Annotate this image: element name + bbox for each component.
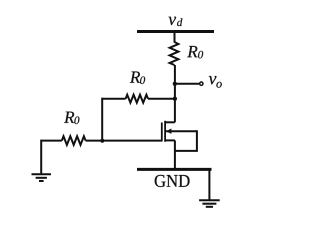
node v_o terminal circle bbox=[200, 82, 203, 85]
resistor R2 (R0, feedback) bbox=[126, 95, 148, 103]
transistor Q1 drain stub bbox=[165, 121, 175, 123]
transistor Q1 gate bar bbox=[161, 123, 163, 142]
wire: body tie drop bbox=[175, 130, 197, 151]
node junction dot (gate node) bbox=[100, 139, 104, 143]
label R0 (drain load) bbox=[187, 46, 203, 58]
label R0 (feedback) bbox=[130, 72, 145, 84]
wire: feedback resistor right lead bbox=[148, 98, 175, 100]
wire: left drop to ground bbox=[40, 140, 42, 174]
node junction dot (feedback tap) bbox=[173, 97, 177, 101]
wire: gate line (junction to gate bar) bbox=[86, 140, 162, 142]
transistor Q1 channel bar bbox=[164, 121, 166, 142]
wire: feedback column down to gate bbox=[101, 98, 103, 141]
ground (left) bbox=[32, 174, 52, 181]
ground (right) bbox=[199, 200, 220, 207]
wire: rail to right ground bbox=[208, 169, 210, 199]
wire: rail to resistor R1 bbox=[174, 32, 176, 43]
wire: drain column bbox=[174, 65, 176, 122]
label v_d bbox=[169, 17, 183, 26]
label v_o bbox=[209, 76, 222, 88]
resistor R3 (R0, gate to ground) bbox=[62, 136, 86, 145]
transistor Q1 body arrowhead bbox=[166, 129, 171, 134]
transistor Q1 body arrow line bbox=[166, 130, 197, 132]
wire: source down to ground rail bbox=[174, 140, 176, 169]
resistor R1 (R0, drain load) bbox=[170, 42, 179, 65]
wire: gate resistor left lead bbox=[41, 140, 62, 142]
label GND bbox=[155, 175, 190, 187]
label R0 (gate resistor) bbox=[64, 112, 79, 124]
power rail v_d bbox=[137, 30, 214, 33]
transistor Q1 source stub bbox=[165, 139, 175, 141]
wire: output branch bbox=[175, 83, 199, 85]
ground rail GND bbox=[137, 168, 212, 171]
node junction dot (output tap) bbox=[173, 82, 177, 86]
wire: feedback resistor left lead bbox=[102, 98, 125, 100]
